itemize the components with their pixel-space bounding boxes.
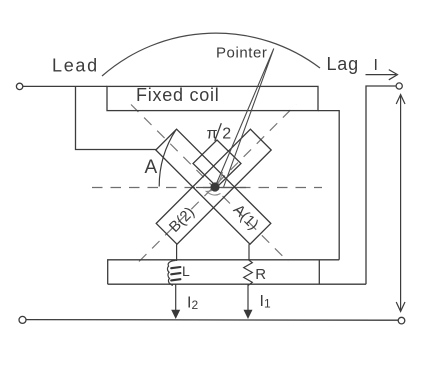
svg-text:Lead: Lead [52, 56, 99, 76]
inductor L [167, 260, 175, 285]
moving coil A (NW-SE rectangle) [156, 129, 271, 244]
voltage double-head arrow (right) [400, 95, 402, 311]
svg-text:π: π [207, 126, 218, 143]
wire: bottom bus [26, 319, 398, 322]
svg-text:I2: I2 [187, 295, 198, 313]
moving coil B (SW-NE rectangle) [156, 129, 271, 244]
terminal top-left [16, 83, 22, 89]
top scale arc [102, 33, 320, 76]
wire: dashed diagonal SW-NE [139, 105, 296, 262]
wire: right side of frame from fixed coil to lower box [318, 111, 339, 260]
wire + arrow I1 [247, 284, 249, 311]
wire: right riser [366, 86, 396, 284]
needle tail flourish [207, 172, 223, 195]
quadrature diamond (pi/2 marker) [193, 140, 241, 187]
wire: coil A lead down to R [248, 244, 250, 260]
pivot dot [210, 182, 219, 191]
svg-text:Lag: Lag [327, 54, 359, 74]
pointer needle [215, 49, 274, 188]
angle A arc [159, 130, 176, 187]
wire: bottom edge of lower box extended to right riser [108, 283, 366, 285]
wire + arrow I2 [175, 284, 177, 311]
terminal bottom-left [19, 316, 26, 323]
svg-text:Pointer: Pointer [216, 45, 267, 62]
current arrow I (top right) [366, 74, 397, 76]
wire: horizontal dashed axis through pivot [92, 187, 322, 189]
fixed coil (bottom) box [108, 260, 340, 284]
resistor R [244, 260, 253, 286]
svg-text:L: L [182, 263, 190, 279]
svg-text:Fixed coil: Fixed coil [136, 85, 220, 105]
wire: top feed from left terminal [23, 85, 107, 87]
svg-text:2: 2 [222, 126, 231, 143]
wire: dashed diagonal NW-SE [131, 105, 288, 262]
fixed coil (top) box [107, 86, 318, 110]
wire: left drop to moving coil A [76, 87, 157, 150]
svg-text:I1: I1 [260, 293, 271, 311]
svg-text:A: A [145, 157, 158, 178]
terminal top-right [396, 83, 402, 89]
svg-text:R: R [255, 266, 266, 283]
terminal bottom-right [398, 317, 405, 324]
wire: coil B lead down to L [176, 244, 178, 261]
svg-text:I: I [374, 57, 378, 74]
